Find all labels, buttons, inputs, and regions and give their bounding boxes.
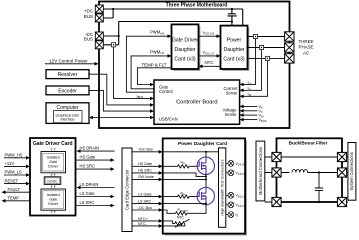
svg-text:USB/CAN: USB/CAN <box>159 116 178 121</box>
node SW <box>205 178 207 180</box>
connector filter left1 <box>272 152 281 161</box>
node filter bottom <box>318 201 320 203</box>
test point VGS_HS <box>226 170 246 176</box>
gate driver daughter card shadow <box>173 26 200 71</box>
svg-text:IS: IS <box>236 213 239 218</box>
svg-text:VGS,HS: VGS,HS <box>236 171 246 176</box>
svg-text:Encoder: Encoder <box>58 89 77 95</box>
pin PWM_HS <box>4 153 30 160</box>
svg-text:Isolated: Isolated <box>47 155 60 159</box>
svg-text:BUS: BUS <box>84 14 93 19</box>
svg-text:+DC Bus: +DC Bus <box>138 148 153 152</box>
svg-text:PWMHS: PWMHS <box>150 30 164 36</box>
svg-text:NTC: NTC <box>177 216 185 220</box>
svg-text:Controller Board: Controller Board <box>176 99 217 105</box>
sensor phase V <box>259 45 263 49</box>
pin TEMP <box>2 196 31 203</box>
svg-text:TEMP & FLT: TEMP & FLT <box>142 63 167 68</box>
sensor phase U <box>253 34 257 38</box>
svg-text:12V Control Power: 12V Control Power <box>49 59 88 64</box>
svg-text:Three Phase Motherboard: Three Phase Motherboard <box>166 2 228 8</box>
svg-text:Gate: Gate <box>49 160 57 164</box>
svg-text:BUS: BUS <box>84 37 93 42</box>
node -DC junction <box>118 35 120 37</box>
connector phase V <box>285 43 294 52</box>
node -DC cap tap <box>231 20 233 22</box>
pin stubs top <box>51 149 56 152</box>
mosfet Q_LS <box>197 187 214 204</box>
resistor R shunt <box>163 204 206 215</box>
test point IS <box>226 212 239 218</box>
pin PWM_LS <box>4 170 30 177</box>
svg-text:Control: Control <box>159 89 173 94</box>
wire filter row3 <box>265 201 348 203</box>
connector phase U <box>285 32 294 41</box>
wire TEMP & FLT <box>137 63 171 87</box>
svg-text:LS Gate: LS Gate <box>138 192 152 196</box>
wire voltage sense W <box>240 113 264 118</box>
test point VGS_LS <box>226 202 246 208</box>
motherboard outline <box>99 2 290 129</box>
wire voltage sense U <box>240 105 263 110</box>
svg-text:VGS,LS: VGS,LS <box>236 203 246 208</box>
svg-text:TEMP: TEMP <box>8 196 20 201</box>
wire +DC internal <box>163 152 219 158</box>
wire filter row1 <box>265 156 348 158</box>
svg-text:Gate: Gate <box>49 198 57 202</box>
wire resolver to controller <box>89 74 154 107</box>
svg-text:Driver: Driver <box>48 202 59 206</box>
node +DC fet tap <box>205 151 207 153</box>
svg-text:Daughter: Daughter <box>224 47 245 53</box>
isolated dcdc block <box>44 177 61 185</box>
mosfet Q_HS <box>197 157 214 174</box>
svg-text:PHASE: PHASE <box>299 45 314 50</box>
pin HS SRC <box>76 164 115 171</box>
pin LS SRC <box>76 200 115 207</box>
svg-text:PWMLS: PWMLS <box>150 49 164 55</box>
wire USB/CAN computer-controller <box>89 116 154 120</box>
gate driver card box <box>30 138 76 216</box>
svg-text:Driver: Driver <box>48 165 59 169</box>
svg-text:DC/DC: DC/DC <box>47 179 58 183</box>
svg-text:High Bandwidth Test Connectors: High Bandwidth Test Connectors <box>220 159 225 215</box>
pin stubs bottom <box>51 210 56 213</box>
svg-text:Gate Driver: Gate Driver <box>172 38 198 44</box>
wire filter row2 <box>265 172 348 174</box>
power card box <box>163 138 245 233</box>
svg-text:-DC Bus: -DC Bus <box>138 206 152 210</box>
svg-text:+DC: +DC <box>84 9 94 14</box>
wire current sense V <box>240 50 262 93</box>
pin stubs mid2 <box>51 184 56 189</box>
wire +DC rail <box>103 9 242 26</box>
wire PWM_LS <box>131 49 171 89</box>
power daughter card shadow <box>222 28 249 71</box>
connector filter right3 <box>337 197 346 206</box>
svg-text:Card Edge Connector: Card Edge Connector <box>125 169 130 210</box>
svg-text:Gate Driver Card: Gate Driver Card <box>33 141 73 147</box>
svg-text:Buck/Boost Filter: Buck/Boost Filter <box>289 141 328 146</box>
wire encoder to controller <box>89 90 154 112</box>
isolated gate driver HS block <box>41 152 66 173</box>
svg-text:AC: AC <box>303 50 309 55</box>
svg-text:+12V: +12V <box>5 161 15 166</box>
pin HS DRAIN <box>77 146 115 153</box>
wire NTC feedback <box>199 60 221 68</box>
svg-text:HS Gate: HS Gate <box>80 155 96 160</box>
resolver box <box>46 70 89 79</box>
svg-text:System Connections: System Connections <box>349 152 354 190</box>
svg-text:VDS,HS: VDS,HS <box>236 162 246 167</box>
wire PWM_HS <box>126 30 171 93</box>
svg-text:Daughter: Daughter <box>175 47 196 53</box>
svg-text:Interface: Interface <box>61 118 75 122</box>
pin labels power card <box>138 148 154 226</box>
svg-text:Power Daughter Card: Power Daughter Card <box>178 141 227 147</box>
computer box <box>46 103 89 124</box>
card edge connector box <box>122 148 132 232</box>
svg-text:HS Gate: HS Gate <box>138 162 152 166</box>
resistor Rg HS <box>163 161 200 168</box>
svg-text:LS SRC: LS SRC <box>80 200 95 205</box>
wire VGS_HS <box>199 31 221 38</box>
svg-text:THREE: THREE <box>299 39 314 44</box>
svg-text:Resolver: Resolver <box>58 72 78 78</box>
motherboard connections box <box>256 141 265 201</box>
connector +DC bus J2 <box>95 14 103 22</box>
high bandwidth test connectors box <box>219 148 226 227</box>
controller board box <box>154 80 240 124</box>
system connections box <box>348 143 356 201</box>
encoder box <box>46 86 89 95</box>
wire current sense W <box>240 61 268 99</box>
svg-text:VDS,LS: VDS,LS <box>236 194 246 199</box>
wire phase W <box>248 57 285 59</box>
test point VDS_LS <box>226 192 246 198</box>
power card pin wires <box>132 152 160 226</box>
svg-text:PWM_LS: PWM_LS <box>5 170 23 175</box>
svg-text:Motherboard Connections: Motherboard Connections <box>258 147 263 195</box>
svg-text:HS SRC: HS SRC <box>138 169 152 173</box>
svg-text:Card (x3): Card (x3) <box>174 56 196 62</box>
isolated gate driver LS block <box>41 189 66 210</box>
power card shadow <box>165 140 247 235</box>
node filter mid <box>318 171 320 173</box>
svg-text:HS SRC: HS SRC <box>80 164 96 169</box>
sensor bus current <box>111 43 115 47</box>
svg-text:RESET: RESET <box>5 178 19 183</box>
gate driver daughter card box <box>172 24 199 69</box>
wire -DC rail <box>103 22 232 45</box>
thermistor NTC <box>163 216 190 228</box>
wire HS source / SW node <box>163 173 206 188</box>
node LS src <box>205 203 207 205</box>
wire 12V control power <box>45 59 99 66</box>
svg-text:FAULT: FAULT <box>8 187 21 192</box>
wire phase V <box>248 47 285 49</box>
connector +DC bus J1 <box>95 5 103 13</box>
svg-text:NTC-: NTC- <box>138 222 148 226</box>
connector filter right1 <box>337 152 346 161</box>
svg-text:Sense: Sense <box>225 112 238 117</box>
svg-text:Power: Power <box>227 38 242 44</box>
pin LS Gate <box>76 191 115 198</box>
pin LS DRAIN <box>77 182 115 189</box>
svg-text:NTC+: NTC+ <box>138 217 148 221</box>
svg-text:LS SRC: LS SRC <box>138 199 152 203</box>
pin stubs mid1 <box>51 173 56 177</box>
svg-text:Computer: Computer <box>57 105 79 111</box>
svg-text:LS Gate: LS Gate <box>80 191 96 196</box>
connector filter left2 <box>272 168 281 177</box>
connector phase W <box>285 54 294 63</box>
wire voltage sense V <box>240 109 263 114</box>
buck boost filter box <box>277 138 343 202</box>
wire phase U <box>248 36 285 38</box>
node +DC junction <box>112 8 114 10</box>
connector -DC bus J3 <box>95 32 103 40</box>
connector filter right2 <box>337 168 346 177</box>
svg-text:Card (x3): Card (x3) <box>223 56 245 62</box>
sensor phase W <box>265 56 269 60</box>
capacitor C filter <box>315 173 323 203</box>
test point VDS_HS <box>226 161 246 167</box>
svg-text:NTC: NTC <box>205 60 214 65</box>
pin HS Gate <box>76 155 115 162</box>
wire VGS_LS <box>199 51 221 58</box>
capacitor DC link <box>227 9 236 26</box>
node HS src <box>205 175 207 177</box>
svg-text:LS DRAIN: LS DRAIN <box>80 182 99 187</box>
label three phase ac <box>299 39 314 55</box>
connector filter left3 <box>272 197 281 206</box>
resistor Rg LS <box>163 191 200 198</box>
node +DC cap tap <box>231 8 233 10</box>
pin +12V <box>4 161 30 168</box>
wire voltage sense BUS <box>240 118 267 123</box>
svg-text:Isolated: Isolated <box>47 193 60 197</box>
wire current sense U <box>240 39 256 87</box>
pin FAULT <box>2 187 31 194</box>
power daughter card box <box>221 26 248 69</box>
inductor L1 <box>292 170 308 173</box>
svg-text:PWM_HS: PWM_HS <box>5 153 23 158</box>
svg-text:SW Node: SW Node <box>138 175 154 179</box>
power card pin arrows <box>159 150 163 228</box>
pin RESET <box>4 178 30 185</box>
wire Ibus sense <box>114 47 155 100</box>
svg-text:HS DRAIN: HS DRAIN <box>80 146 100 151</box>
wire LS source <box>163 203 206 205</box>
svg-text:Sense: Sense <box>226 90 239 95</box>
connector -DC bus J4 <box>95 41 103 49</box>
